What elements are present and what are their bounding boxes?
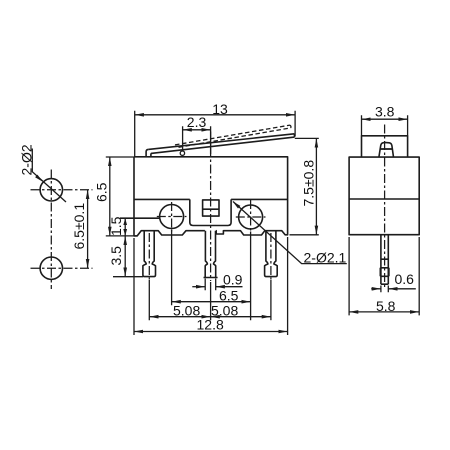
plunger square bbox=[203, 200, 219, 216]
dim 5.08 left bbox=[149, 280, 210, 321]
svg-text:6.5±0.1: 6.5±0.1 bbox=[71, 203, 87, 250]
lever arm solid bbox=[148, 134, 294, 154]
dim 13 bbox=[135, 111, 295, 157]
dim 3.5 bbox=[113, 276, 143, 278]
hole B center lines bbox=[31, 267, 93, 269]
side pin bbox=[380, 235, 389, 285]
hole A bbox=[40, 179, 62, 201]
svg-text:1.5: 1.5 bbox=[108, 216, 124, 236]
svg-text:0.9: 0.9 bbox=[223, 272, 243, 288]
leader 2-Ø2.1 bbox=[233, 202, 347, 264]
side center line bbox=[384, 125, 386, 288]
body outline bbox=[134, 157, 288, 236]
body mid parting line bbox=[134, 198, 288, 200]
svg-text:6.5: 6.5 bbox=[219, 288, 239, 304]
dim 3.8 bbox=[362, 115, 408, 136]
upper block bbox=[362, 136, 408, 157]
hole A center lines bbox=[31, 189, 93, 191]
lever hook bbox=[146, 149, 151, 156]
dim 12.8 bbox=[134, 237, 288, 335]
pin 1 (left) bbox=[143, 231, 156, 277]
pin 2 (middle) bbox=[204, 231, 218, 278]
pin 3 (right) bbox=[265, 231, 278, 277]
ledge line left bbox=[120, 217, 160, 219]
svg-text:13: 13 bbox=[212, 101, 228, 117]
svg-text:0.6: 0.6 bbox=[395, 271, 415, 287]
shared vertical center line bbox=[50, 170, 52, 290]
dim 6.5 left bbox=[106, 157, 137, 236]
leader 2-Ø2 bbox=[32, 149, 66, 203]
side body bbox=[349, 157, 419, 235]
svg-text:3.8: 3.8 bbox=[375, 104, 395, 120]
plunger side bbox=[379, 143, 394, 158]
mount hole left bbox=[160, 205, 184, 229]
svg-text:3.5: 3.5 bbox=[108, 246, 124, 266]
side body mid line bbox=[349, 198, 419, 200]
svg-text:12.8: 12.8 bbox=[197, 317, 224, 333]
dim 5.08 right bbox=[270, 280, 272, 321]
dim 6.5 bottom bbox=[172, 230, 251, 321]
dim 5.8 bbox=[349, 237, 419, 315]
dim 2.3 bbox=[183, 126, 211, 154]
lever pivot circle bbox=[180, 151, 184, 155]
dim 6.5±0.1 bbox=[87, 190, 89, 268]
plunger channel bbox=[190, 199, 231, 225]
dim 7.5±0.8 bbox=[290, 138, 319, 234]
dim 1.5 bbox=[124, 218, 126, 236]
center line vertical bbox=[210, 132, 212, 282]
hole B bbox=[40, 257, 62, 279]
mount hole right bbox=[239, 205, 263, 229]
dim 0.6 bbox=[381, 286, 388, 293]
svg-text:5.8: 5.8 bbox=[376, 298, 396, 314]
lever arm phantom dashed bbox=[175, 125, 291, 147]
svg-text:7.5±0.8: 7.5±0.8 bbox=[301, 160, 317, 207]
svg-text:2-Ø2.1: 2-Ø2.1 bbox=[304, 250, 347, 266]
svg-text:2.3: 2.3 bbox=[187, 114, 207, 130]
svg-text:6.5: 6.5 bbox=[94, 182, 110, 202]
dim 0.9 bbox=[205, 279, 216, 291]
